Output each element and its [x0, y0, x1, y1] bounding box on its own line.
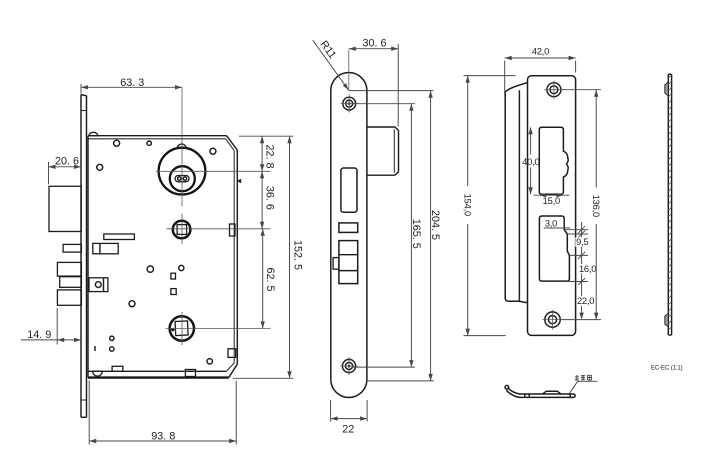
deadbolt guide block [63, 244, 81, 252]
upper follower hub [173, 221, 191, 239]
small cutout [339, 223, 358, 233]
case top edge line [349, 90, 434, 92]
small dash [94, 346, 96, 351]
right edge notch upper [230, 224, 236, 236]
svg-text:63. 3: 63. 3 [120, 77, 144, 89]
small square B [171, 289, 176, 295]
svg-text:22: 22 [342, 423, 354, 435]
strike side profile curved lip inner [506, 390, 519, 397]
dimension 154.0 [462, 76, 516, 336]
dimension 14.9 [21, 308, 81, 345]
cylinder hole outer circle [159, 148, 206, 195]
svg-text:136,0: 136,0 [591, 195, 601, 217]
svg-text:14. 9: 14. 9 [27, 329, 51, 341]
bottom screw hole [342, 359, 355, 372]
burr face label [575, 375, 592, 380]
svg-text:9,5: 9,5 [576, 237, 588, 247]
screw post circles [114, 140, 120, 146]
deadbolt left tab [333, 258, 339, 270]
small square A [171, 273, 176, 279]
section top tab [665, 82, 669, 96]
svg-text:15,0: 15,0 [543, 196, 560, 206]
cylinder centerlines [181, 87, 183, 206]
cylinder top dome [177, 144, 186, 147]
svg-text:204. 5: 204. 5 [429, 210, 441, 240]
dimension 22.8 [239, 136, 294, 171]
keyway [175, 176, 189, 182]
bottom edge tab 2 [185, 370, 195, 377]
svg-text:3,0: 3,0 [545, 218, 557, 228]
svg-text:30. 6: 30. 6 [362, 38, 386, 50]
section bottom tab [665, 313, 669, 327]
cylinder core circle [170, 166, 195, 191]
latch cutout [341, 168, 357, 212]
svg-text:20. 6: 20. 6 [55, 156, 79, 168]
profile bump [543, 391, 561, 394]
svg-text:62. 5: 62. 5 [264, 267, 276, 291]
strike plate lip fold line [518, 90, 520, 301]
dimension 36.6 [260, 171, 275, 229]
lock body outline [88, 136, 237, 378]
deadbolt step 3 [57, 290, 81, 305]
dimension 30.6 [349, 38, 398, 127]
deadbolt step 2 [60, 277, 82, 288]
strike plate lip outline [505, 83, 527, 303]
latch bolt (side view) [49, 186, 81, 231]
svg-text:36. 6: 36. 6 [263, 186, 275, 210]
dimension 63.3 [81, 77, 182, 94]
dimension 22 width [331, 400, 368, 435]
deadbolt opening with steps [539, 216, 569, 281]
strike top screw hole [547, 83, 561, 97]
stop block with pin [89, 278, 108, 292]
top screw hole [343, 97, 356, 110]
strike plate face outline [528, 76, 576, 336]
dimension 20.6 [49, 156, 82, 185]
faceplate centerline [348, 50, 350, 92]
strike bottom screw hole [545, 312, 560, 327]
dimension 9.5 text [575, 237, 589, 247]
dimension 62.5 [261, 229, 276, 329]
svg-text:93. 8: 93. 8 [151, 430, 175, 442]
svg-text:16,0: 16,0 [579, 264, 596, 274]
dimension 40.0 [522, 127, 539, 194]
latch opening with tongue notch [539, 127, 568, 194]
lip rolled tip [505, 385, 509, 389]
bend ticks [524, 394, 526, 397]
rivet bump on body top edge [89, 132, 98, 135]
svg-text:22,0: 22,0 [577, 296, 594, 306]
section hatching [668, 75, 671, 330]
small step dimension column [565, 222, 589, 320]
bottom edge tab 1 [112, 366, 123, 371]
spring bar [104, 234, 135, 240]
right edge pointer mark [237, 179, 241, 184]
svg-text:EC-EC (1:1): EC-EC (1:1) [651, 365, 683, 372]
dimension 15.0 [534, 193, 570, 206]
dimension 136.0 [561, 90, 602, 320]
bottom rivet half circle [93, 371, 103, 376]
dimension 22.0 text [577, 296, 595, 306]
burr face leader [569, 381, 597, 393]
deadbolt cutout stack [339, 241, 358, 284]
dimension 165.5 [352, 104, 422, 367]
svg-text:40,0: 40,0 [522, 157, 539, 167]
left view faceplate strip (edge-on) [81, 95, 87, 418]
lower follower hub [170, 316, 194, 340]
svg-text:152. 5: 152. 5 [292, 240, 304, 270]
strike side profile curved lip outer [508, 388, 520, 394]
svg-text:22. 8: 22. 8 [263, 144, 275, 168]
upper follower centerlines [181, 214, 183, 245]
bracket with divider [93, 243, 118, 253]
dimension 204.5 [367, 91, 441, 381]
deadbolt step 1 [57, 262, 81, 276]
svg-text:165. 5: 165. 5 [410, 219, 422, 249]
lower follower centerlines [181, 312, 183, 345]
section bar outline [668, 74, 671, 335]
radius leader R11 [313, 39, 349, 90]
dimension 152.5 [233, 136, 304, 378]
lock case box behind plate [367, 127, 399, 175]
dimension 3.0 [544, 218, 571, 228]
svg-text:42,0: 42,0 [532, 47, 549, 57]
svg-text:154,0: 154,0 [462, 194, 472, 216]
right edge notch lower [228, 349, 236, 358]
dimension 42.0 [505, 47, 576, 98]
faceplate front outline [331, 73, 367, 398]
strike side profile bar [519, 394, 575, 397]
dimension 93.8 [89, 381, 236, 445]
dimension 16.0 text [579, 264, 597, 274]
